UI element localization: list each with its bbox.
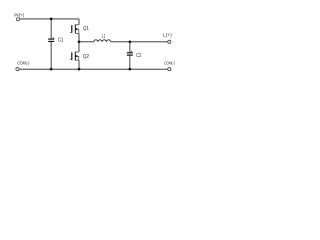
svg-text:Q1: Q1	[83, 26, 89, 32]
svg-text:L1: L1	[102, 34, 105, 40]
svg-text:L(+): L(+)	[163, 33, 172, 38]
svg-text:COM(-): COM(-)	[17, 60, 29, 65]
svg-text:COM(-): COM(-)	[164, 61, 175, 66]
svg-text:C2: C2	[136, 53, 141, 59]
svg-text:Q2: Q2	[83, 54, 89, 60]
svg-text:C1: C1	[58, 38, 64, 44]
svg-text:IN(+): IN(+)	[14, 13, 24, 18]
